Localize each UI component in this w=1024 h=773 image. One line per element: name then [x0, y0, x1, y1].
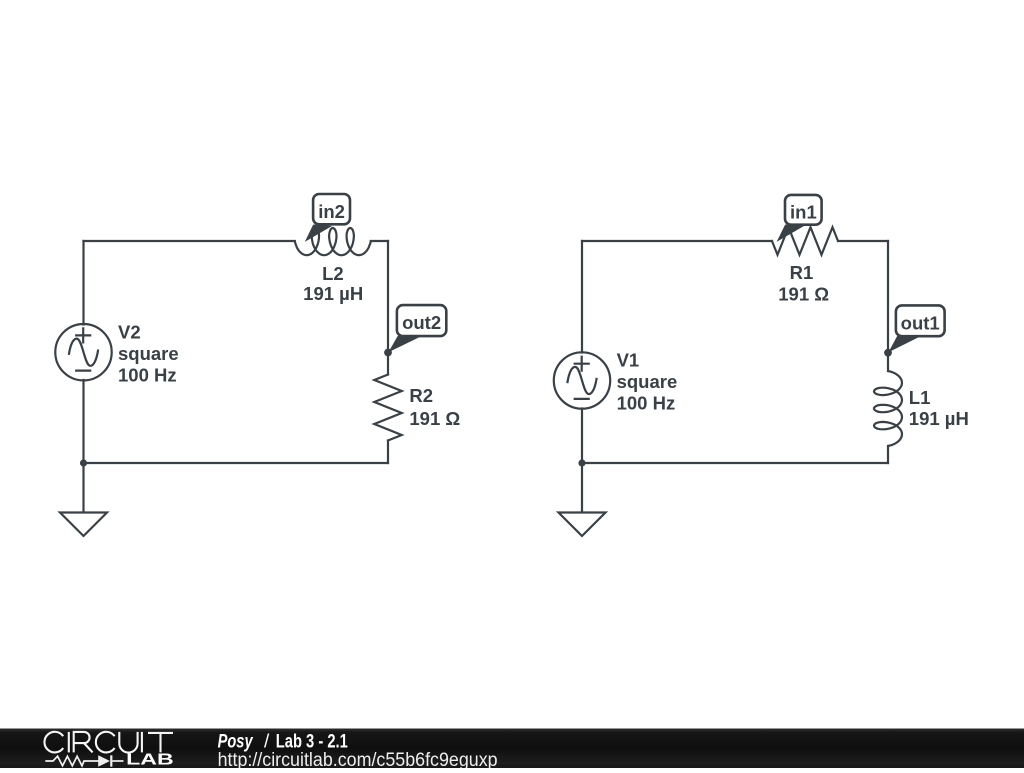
svg-text:out2: out2 [402, 312, 441, 333]
flag in2 [305, 194, 350, 242]
wire [887, 446, 889, 463]
wire [582, 462, 888, 464]
resistor R2 [374, 375, 402, 441]
svg-text:V1: V1 [617, 350, 640, 371]
wire [887, 241, 889, 353]
flag in1 [777, 195, 822, 242]
svg-text:in2: in2 [318, 201, 345, 222]
node out2 [384, 349, 392, 357]
svg-text:100 Hz: 100 Hz [118, 364, 177, 385]
svg-text:191 Ω: 191 Ω [409, 408, 460, 429]
svg-text:191 Ω: 191 Ω [778, 283, 829, 304]
wire [387, 441, 389, 464]
wire [838, 240, 888, 242]
node out1 [884, 349, 892, 357]
svg-text:L2: L2 [322, 263, 344, 284]
svg-text:100 Hz: 100 Hz [617, 393, 676, 414]
junction [578, 459, 585, 466]
inductor L1 [874, 371, 902, 446]
wire [387, 241, 389, 353]
wire [887, 353, 889, 371]
logo diode [98, 755, 110, 767]
wire [582, 240, 772, 242]
svg-text:191 µH: 191 µH [909, 408, 969, 429]
svg-text:R1: R1 [790, 262, 814, 283]
junction [80, 459, 87, 466]
wire [371, 240, 388, 242]
svg-text:square: square [617, 371, 678, 392]
wire [581, 409, 583, 513]
svg-text:out1: out1 [901, 312, 940, 333]
svg-text:R2: R2 [409, 385, 433, 406]
voltage source V1 [554, 352, 610, 408]
svg-text:191 µH: 191 µH [303, 283, 363, 304]
wire [84, 240, 295, 242]
wire [82, 241, 84, 325]
wire [82, 380, 84, 513]
inductor L2 [295, 228, 371, 255]
ground [60, 513, 107, 537]
wire [387, 353, 389, 375]
wire [84, 462, 389, 464]
svg-text:V2: V2 [118, 321, 141, 342]
voltage source V2 [55, 324, 111, 380]
footer bar [0, 729, 1024, 769]
svg-text:LAB: LAB [126, 751, 174, 768]
ground [559, 513, 606, 537]
svg-text:http://circuitlab.com/c55b6fc9: http://circuitlab.com/c55b6fc9eguxp [218, 750, 498, 768]
svg-text:square: square [118, 343, 179, 364]
wire [581, 241, 583, 353]
logo squiggle wire [45, 755, 123, 766]
svg-text:L1: L1 [909, 387, 931, 408]
flag out1 [888, 305, 944, 352]
logo CIRCUIT [44, 732, 173, 753]
svg-text:in1: in1 [790, 201, 817, 222]
resistor R1 [772, 227, 838, 255]
flag out2 [388, 305, 446, 352]
